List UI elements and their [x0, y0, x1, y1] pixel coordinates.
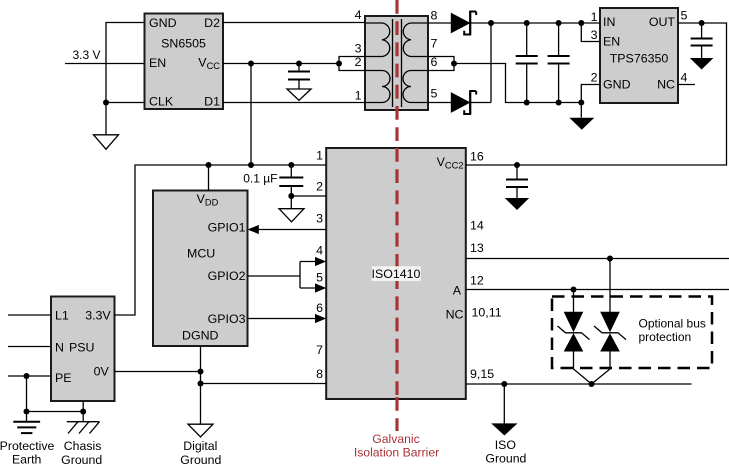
wire ISO pin6 GPIO3	[248, 318, 317, 320]
svg-text:Isolation Barrier: Isolation Barrier	[354, 446, 439, 460]
svg-text:IN: IN	[603, 15, 615, 29]
wire primary center tap bracket	[339, 57, 365, 71]
arrow into ISO pin4	[315, 257, 326, 266]
svg-text:CLK: CLK	[149, 95, 174, 109]
TVS diode D4	[592, 259, 627, 385]
svg-text:8: 8	[316, 367, 323, 381]
junction VCC drop	[248, 162, 254, 168]
svg-text:4: 4	[355, 8, 362, 22]
junction ISO ground drop	[501, 381, 507, 387]
capacitor C6 0.1uF	[279, 165, 303, 209]
wire ISO pin12	[466, 289, 729, 291]
junction OUT cap	[699, 20, 705, 26]
wire D1 to transformer pin 1	[223, 102, 365, 104]
svg-text:3.3 V: 3.3 V	[73, 48, 101, 62]
ISO right pin number labels	[470, 150, 502, 382]
chip U1 SN6505 labels	[149, 16, 220, 108]
ground iso (TPS)	[569, 118, 594, 130]
svg-text:D2: D2	[204, 16, 220, 30]
svg-text:7: 7	[431, 37, 438, 51]
wire TPS EN bracket	[581, 23, 600, 42]
svg-text:N: N	[55, 341, 64, 355]
junction pin8-DGND	[198, 381, 204, 387]
junction VCC-2	[296, 61, 302, 67]
wire diode D1 to TPS IN	[470, 22, 600, 24]
ground iso	[491, 423, 517, 435]
galvanic isolation barrier dashed line	[395, 0, 398, 431]
ground protective earth	[13, 422, 40, 433]
wire mains PE	[8, 375, 51, 377]
svg-text:12: 12	[470, 274, 484, 288]
svg-text:7: 7	[316, 343, 323, 357]
svg-text:4: 4	[681, 71, 688, 85]
junction C2 bottom	[524, 100, 530, 106]
junction VCC2 cap	[514, 162, 520, 168]
wire 3.3V to EN	[65, 63, 145, 65]
ground iso (C4)	[690, 58, 714, 70]
ground logic (C1)	[287, 89, 311, 100]
svg-text:ISO1410: ISO1410	[372, 267, 421, 281]
svg-text:GND: GND	[149, 16, 177, 30]
wire transformer pin 8 to diode D1	[428, 22, 451, 24]
svg-text:Earth: Earth	[12, 452, 42, 466]
chip U5 PSU labels	[55, 309, 111, 385]
wire CLK node to ground	[105, 103, 107, 135]
svg-text:Ground: Ground	[485, 452, 526, 466]
wire VDD drop	[208, 165, 210, 191]
wire D2 to transformer pin 4	[223, 22, 365, 24]
chip U5 PSU body	[51, 297, 115, 402]
svg-text:PSU: PSU	[69, 341, 94, 355]
chip U4 MCU body	[153, 191, 248, 347]
chip U2 TPS76350 labels	[603, 15, 675, 92]
junction C3 top	[556, 20, 562, 26]
svg-text:OUT: OUT	[649, 15, 676, 29]
label ISO Ground	[485, 438, 526, 466]
wire CLK stub	[106, 102, 145, 104]
svg-text:A: A	[453, 284, 462, 298]
arrow into MCU GPIO1	[248, 225, 259, 234]
ISO left pin number labels	[316, 149, 323, 382]
junction C3 bottom	[556, 100, 562, 106]
wire mains L1	[8, 314, 51, 316]
svg-text:Protective: Protective	[0, 439, 54, 453]
ground iso (C5)	[505, 198, 529, 210]
svg-text:1: 1	[316, 149, 323, 163]
svg-text:EN: EN	[149, 56, 166, 70]
wire VCC down to ISO pin1 rail	[250, 64, 252, 166]
capacitor C2 (filter)	[516, 23, 538, 103]
transformer T1 primary winding lower	[366, 71, 390, 103]
svg-text:Ground: Ground	[180, 453, 221, 467]
svg-text:10,11: 10,11	[472, 306, 502, 320]
svg-text:L1: L1	[55, 309, 69, 323]
diode D1 (schottky)	[451, 12, 476, 35]
wire mains N	[8, 346, 51, 348]
label Digital Ground	[180, 439, 221, 467]
svg-text:SN6505: SN6505	[161, 36, 206, 50]
junction 0V-DGND	[198, 369, 204, 375]
svg-text:ISO: ISO	[495, 438, 516, 452]
junction TPS GND rail	[578, 100, 584, 106]
junction VCC-3	[336, 61, 342, 67]
svg-text:NC: NC	[446, 307, 464, 321]
junction TVS1 top	[571, 287, 577, 293]
svg-text:MCU: MCU	[187, 247, 215, 261]
svg-text:16: 16	[470, 150, 484, 164]
capacitor C4 (LDO out)	[691, 23, 713, 58]
transformer T1 secondary winding lower	[403, 71, 427, 103]
svg-text:GPIO2: GPIO2	[208, 269, 246, 283]
svg-text:DGND: DGND	[182, 329, 219, 343]
svg-text:5: 5	[316, 271, 323, 285]
optional bus protection dashed box	[552, 297, 712, 369]
svg-text:2: 2	[355, 55, 362, 69]
junction center tap	[451, 61, 457, 67]
svg-text:GPIO1: GPIO1	[208, 220, 246, 234]
svg-text:GPIO3: GPIO3	[208, 312, 246, 326]
svg-text:0V: 0V	[94, 364, 110, 378]
ground logic (SN6505)	[94, 135, 119, 149]
transformer T1 secondary winding upper	[403, 23, 427, 57]
svg-text:3.3V: 3.3V	[85, 309, 111, 323]
wire ISO pin3 GPIO1	[258, 229, 326, 231]
svg-text:9,15: 9,15	[470, 367, 494, 381]
svg-text:3: 3	[591, 28, 598, 42]
wire ISO pin1 rail to PSU 3.3V	[115, 165, 327, 315]
wire ISO ground drop	[503, 384, 505, 423]
label Chasis Ground	[61, 439, 102, 467]
wire ISO pin13	[466, 258, 729, 260]
chip U3 ISO1410 body	[326, 148, 466, 399]
junction ISO pin2	[288, 193, 294, 199]
wire MCU DGND to digital ground	[200, 346, 202, 424]
wire PSU bottom to chassis ground	[82, 401, 84, 422]
chip U1 SN6505 body	[145, 14, 224, 110]
TPS pin number labels	[591, 8, 688, 84]
svg-text:5: 5	[431, 87, 438, 101]
arrow into ISO pin6	[315, 314, 326, 323]
svg-text:2: 2	[316, 180, 323, 194]
junction PE	[24, 373, 30, 379]
wire GPIO2 bracket to ISO pins 4,5	[248, 262, 317, 289]
ground logic (C6)	[279, 209, 304, 222]
svg-text:GND: GND	[603, 78, 631, 92]
junction 0.1uF top	[288, 162, 294, 168]
chip U3 ISO1410 pin name labels	[437, 155, 464, 321]
arrow into ISO pin5	[315, 283, 326, 292]
junction rectifier output	[488, 20, 494, 26]
svg-text:Optional bus: Optional bus	[639, 317, 706, 331]
transformer left pin labels	[355, 8, 362, 103]
transformer T1 primary winding upper	[366, 23, 390, 57]
junction TPS IN/EN	[578, 20, 584, 26]
junction earth bus right	[80, 409, 86, 415]
svg-text:Galvanic: Galvanic	[372, 432, 419, 446]
svg-text:TPS76350: TPS76350	[610, 51, 669, 65]
ground digital	[188, 424, 213, 437]
wire ISO pin9,15	[466, 383, 692, 385]
chip U4 MCU labels	[182, 192, 246, 343]
wire TPS NC stub	[678, 84, 695, 86]
transformer T1 body	[365, 16, 428, 110]
svg-text:Digital: Digital	[183, 439, 217, 453]
junction CLK-GND	[103, 100, 109, 106]
transformer right pin labels	[431, 9, 438, 101]
svg-text:protection: protection	[639, 330, 692, 344]
svg-text:Chasis: Chasis	[64, 439, 102, 453]
wire center tap to ground rail	[454, 64, 581, 103]
wire ISO pin8	[201, 383, 327, 385]
svg-text:5: 5	[681, 8, 688, 22]
wire transformer pin 5 to diode D2	[428, 102, 451, 104]
wire diode outputs join	[490, 23, 492, 103]
wire secondary center tap bracket	[428, 57, 454, 71]
svg-text:PE: PE	[55, 371, 72, 385]
svg-text:D1: D1	[204, 95, 220, 109]
label Protective Earth	[0, 439, 54, 467]
svg-text:14: 14	[470, 218, 484, 232]
svg-text:0.1 µF: 0.1 µF	[243, 171, 277, 185]
wire PE to earth bus	[26, 376, 28, 422]
transformer T1 core	[393, 19, 402, 107]
TVS diode D3	[558, 290, 592, 385]
junction earth bus left	[24, 409, 30, 415]
capacitor C3 (filter)	[548, 23, 570, 103]
svg-text:13: 13	[470, 241, 484, 255]
label Optional bus protection	[639, 317, 706, 345]
svg-text:3: 3	[355, 42, 362, 56]
svg-text:1: 1	[355, 89, 362, 103]
svg-text:6: 6	[316, 301, 323, 315]
capacitor C1 (SN6505 bypass)	[288, 64, 310, 90]
junction TVS common	[589, 381, 595, 387]
svg-text:EN: EN	[603, 35, 620, 49]
ground chassis	[67, 422, 100, 434]
junction VCC-1	[248, 61, 254, 67]
svg-text:Ground: Ground	[61, 453, 102, 467]
wire PSU 0V	[115, 371, 201, 373]
label ISO1410	[372, 266, 421, 281]
svg-text:8: 8	[431, 9, 438, 23]
chip U2 TPS76350 body	[600, 8, 678, 103]
junction VDD drop	[206, 162, 212, 168]
wire earth bus	[27, 411, 84, 413]
junction C2 top	[524, 20, 530, 26]
diode D2 (schottky)	[451, 91, 476, 114]
svg-text:3: 3	[316, 211, 323, 225]
wire diode D2 output	[470, 102, 491, 104]
wire SN6505 GND down to CLK	[106, 23, 145, 103]
capacitor C5 (VCC2 bypass)	[506, 165, 528, 198]
wire TPS GND	[581, 85, 600, 118]
junction TVS2 top	[607, 256, 613, 262]
svg-text:1: 1	[591, 10, 598, 24]
wire TPS OUT to ISO VCC2	[466, 23, 727, 165]
wire ISO pin2	[291, 195, 326, 197]
label Galvanic Isolation Barrier	[354, 432, 439, 460]
svg-text:NC: NC	[657, 78, 675, 92]
svg-text:4: 4	[316, 244, 323, 258]
wire VCC to transformer center tap	[223, 63, 339, 65]
svg-text:2: 2	[591, 71, 598, 85]
